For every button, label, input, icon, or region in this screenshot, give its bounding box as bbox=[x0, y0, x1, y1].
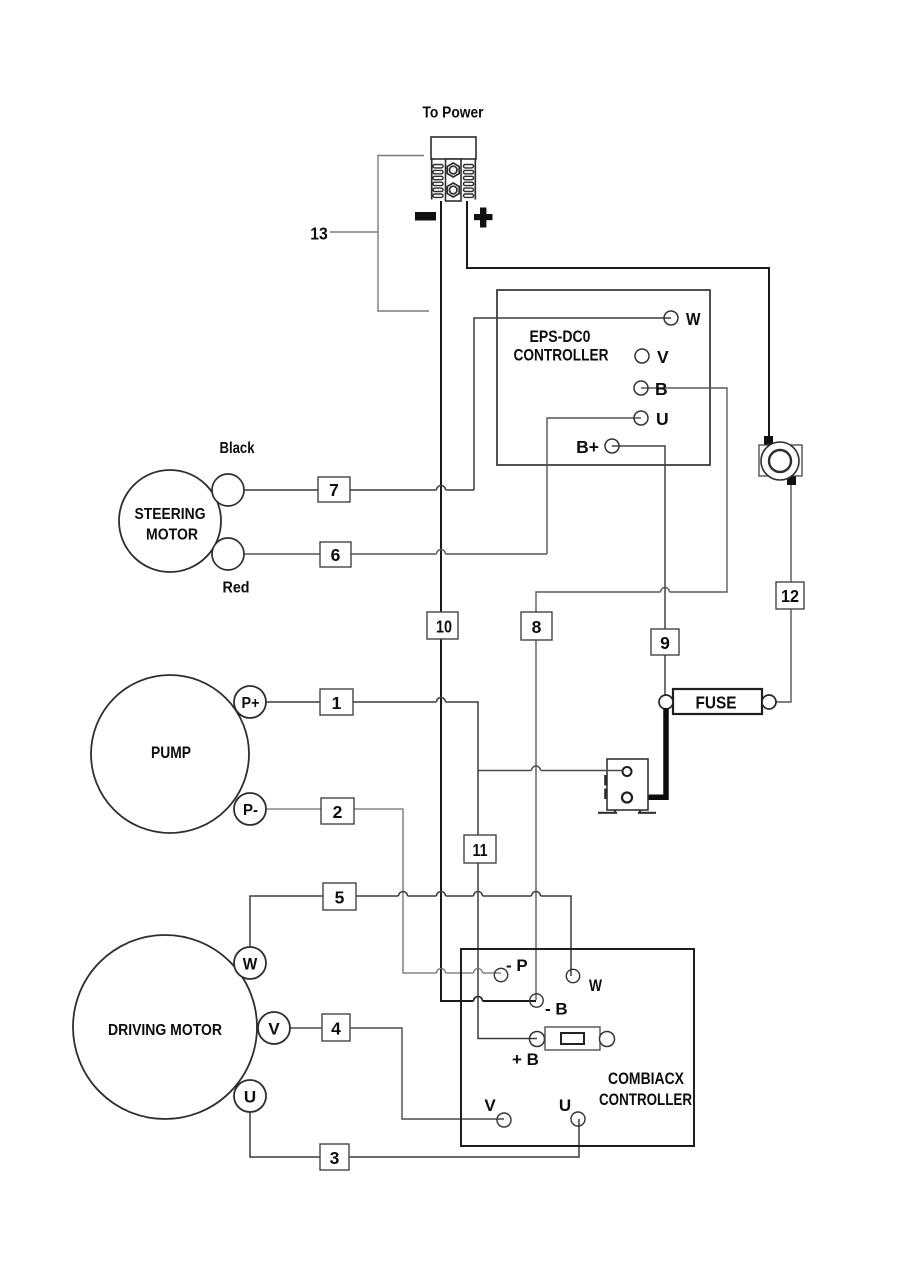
wire 5 driving W to combiacx W bbox=[250, 896, 571, 976]
terminal W of combiacx bbox=[566, 969, 602, 995]
wire B+ EPS to fuse bbox=[612, 446, 665, 695]
driving motor M3 bbox=[73, 935, 257, 1119]
plus symbol bbox=[474, 208, 493, 228]
svg-text:B+: B+ bbox=[576, 437, 599, 457]
controller box U2 COMBIACX bbox=[461, 949, 694, 1146]
svg-text:W: W bbox=[243, 955, 258, 974]
fuse holder +B of combiacx bbox=[512, 1027, 615, 1069]
svg-text:- B: - B bbox=[545, 1000, 568, 1019]
svg-text:5: 5 bbox=[335, 888, 345, 908]
svg-text:CONTROLLER: CONTROLLER bbox=[514, 347, 609, 365]
terminal V of EPS bbox=[635, 347, 669, 367]
terminal W of driving motor bbox=[234, 947, 266, 979]
terminal U of driving motor bbox=[234, 1080, 266, 1112]
wire 4 driving V to combiacx V bbox=[289, 1028, 504, 1119]
svg-text:V: V bbox=[657, 347, 669, 367]
svg-text:3: 3 bbox=[330, 1148, 340, 1168]
svg-text:B: B bbox=[655, 379, 668, 399]
terminal U of EPS bbox=[634, 409, 669, 429]
wire 1 pump P+ to +B bbox=[265, 702, 537, 1039]
svg-text:CONTROLLER: CONTROLLER bbox=[599, 1091, 692, 1109]
svg-text:P+: P+ bbox=[242, 695, 260, 712]
steering motor M1 bbox=[119, 470, 221, 572]
svg-text:Black: Black bbox=[220, 440, 255, 457]
svg-text:FUSE: FUSE bbox=[696, 693, 737, 713]
fuse F1 bbox=[659, 689, 776, 714]
pump motor M2 bbox=[91, 675, 249, 833]
svg-text:1: 1 bbox=[332, 693, 342, 713]
terminal B+ of EPS bbox=[576, 437, 619, 457]
label box 3 bbox=[320, 1144, 349, 1170]
terminal U of combiacx bbox=[559, 1096, 585, 1126]
wire plus main bbox=[467, 201, 769, 436]
svg-text:V: V bbox=[484, 1096, 496, 1115]
label COMBIACX CONTROLLER bbox=[599, 1070, 692, 1109]
svg-text:11: 11 bbox=[473, 840, 488, 860]
terminal P- of pump bbox=[234, 793, 266, 825]
terminal B of EPS bbox=[634, 379, 668, 399]
svg-text:DRIVING MOTOR: DRIVING MOTOR bbox=[108, 1022, 222, 1039]
svg-text:V: V bbox=[268, 1020, 280, 1039]
svg-text:8: 8 bbox=[532, 617, 542, 637]
terminal P+ of pump bbox=[234, 686, 266, 718]
wire 6 bbox=[244, 553, 547, 555]
svg-text:PUMP: PUMP bbox=[151, 744, 191, 762]
terminal black of steering motor bbox=[212, 474, 244, 506]
svg-text:13: 13 bbox=[310, 224, 328, 244]
label box 9 bbox=[651, 629, 679, 655]
svg-text:6: 6 bbox=[331, 545, 341, 565]
contactor K1 bbox=[598, 759, 656, 813]
svg-text:COMBIACX: COMBIACX bbox=[608, 1070, 684, 1088]
svg-text:12: 12 bbox=[781, 586, 799, 606]
terminal -B of combiacx bbox=[530, 994, 568, 1019]
svg-text:Red: Red bbox=[223, 580, 250, 597]
svg-text:U: U bbox=[244, 1088, 256, 1107]
svg-text:P-: P- bbox=[243, 802, 258, 819]
terminal -P of combiacx bbox=[494, 956, 527, 982]
wire 7 bbox=[244, 489, 474, 491]
svg-text:2: 2 bbox=[333, 802, 343, 822]
controller box U1 EPS-DC0 bbox=[497, 290, 710, 465]
terminal red of steering motor bbox=[212, 538, 244, 570]
wire 13 bracket bbox=[330, 156, 429, 312]
label box 6 bbox=[320, 542, 351, 567]
wire B EPS to -B combiacx bbox=[536, 388, 727, 1000]
wire sensor to fuse via 12 bbox=[776, 485, 791, 702]
svg-text:7: 7 bbox=[329, 480, 339, 500]
wire 3 driving U to combiacx U bbox=[250, 1112, 579, 1157]
minus symbol bbox=[415, 212, 436, 221]
label box 5 bbox=[323, 883, 356, 910]
label box 1 bbox=[320, 689, 353, 715]
label box 10 bbox=[427, 612, 458, 639]
current sensor CS1 bbox=[759, 436, 802, 485]
svg-text:W: W bbox=[589, 976, 603, 995]
label box 7 bbox=[318, 477, 350, 502]
label box 8 bbox=[521, 612, 552, 640]
label box 4 bbox=[322, 1014, 350, 1041]
svg-text:U: U bbox=[656, 409, 669, 429]
terminal V of combiacx bbox=[484, 1096, 511, 1127]
svg-text:STEERING: STEERING bbox=[135, 506, 206, 523]
svg-text:10: 10 bbox=[436, 617, 452, 637]
wire contactor coil to node 1 bbox=[478, 770, 623, 772]
label box 11 bbox=[464, 835, 496, 863]
svg-text:W: W bbox=[686, 309, 701, 329]
svg-text:EPS-DC0: EPS-DC0 bbox=[530, 328, 591, 346]
connector J1 to power bbox=[431, 137, 476, 201]
svg-text:To Power: To Power bbox=[423, 105, 484, 122]
svg-text:MOTOR: MOTOR bbox=[146, 527, 198, 544]
label box 12 bbox=[776, 582, 804, 609]
wire U EPS to node 6 bbox=[547, 418, 641, 554]
terminal V of driving motor bbox=[258, 1012, 290, 1044]
svg-text:- P: - P bbox=[506, 956, 528, 975]
label box 2 bbox=[321, 798, 354, 824]
svg-text:4: 4 bbox=[331, 1019, 341, 1039]
terminal W of EPS bbox=[664, 309, 701, 329]
label EPS-DC0 CONTROLLER bbox=[514, 328, 609, 365]
svg-text:U: U bbox=[559, 1096, 571, 1115]
svg-text:9: 9 bbox=[660, 633, 670, 653]
wire minus main bbox=[441, 201, 536, 1001]
wire 2 pump P- to -P bbox=[265, 809, 501, 973]
svg-text:+ B: + B bbox=[512, 1050, 539, 1069]
wire W EPS to node 7 bbox=[474, 318, 671, 490]
thick battery cable fuse to contactor bbox=[632, 708, 666, 797]
